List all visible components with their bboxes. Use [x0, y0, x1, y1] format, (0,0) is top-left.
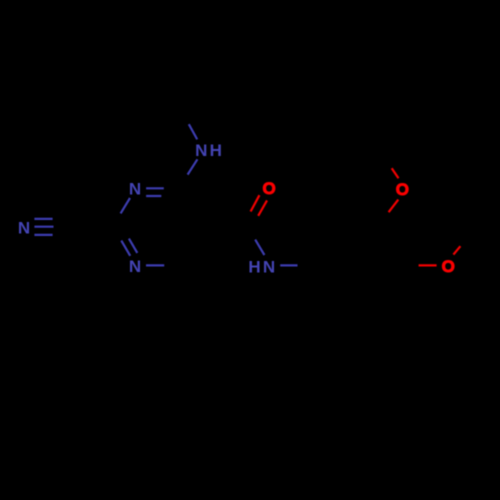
amide bond C11-N13: [255, 240, 264, 255]
svg-text:N: N: [18, 218, 30, 237]
bond O22-CH3: [453, 246, 460, 254]
nitrile triple bond C#N: [34, 219, 53, 235]
bond C4-NH: [188, 159, 198, 174]
svg-text:H: H: [248, 258, 260, 277]
double bond N1=C4: [146, 188, 164, 196]
bond NH-CH3: [189, 124, 197, 139]
bond C17-O22 (right methoxy): [419, 264, 437, 266]
double bond C2=N3: [121, 239, 137, 256]
bond N13-phenyl: [280, 264, 297, 266]
svg-text:N: N: [129, 179, 141, 198]
bond C16-O20 (upper methoxy): [389, 200, 399, 213]
svg-text:O: O: [396, 180, 409, 199]
svg-text:N: N: [263, 258, 275, 277]
svg-text:N: N: [129, 257, 141, 276]
svg-text:O: O: [262, 179, 275, 198]
bond N3-C6: [146, 264, 164, 266]
bond N1-C2: [121, 198, 130, 213]
svg-text:N: N: [195, 141, 207, 160]
double bond C=O: [251, 195, 267, 216]
svg-text:H: H: [210, 141, 222, 160]
bond O20-CH3: [392, 168, 399, 178]
svg-text:O: O: [442, 257, 455, 276]
